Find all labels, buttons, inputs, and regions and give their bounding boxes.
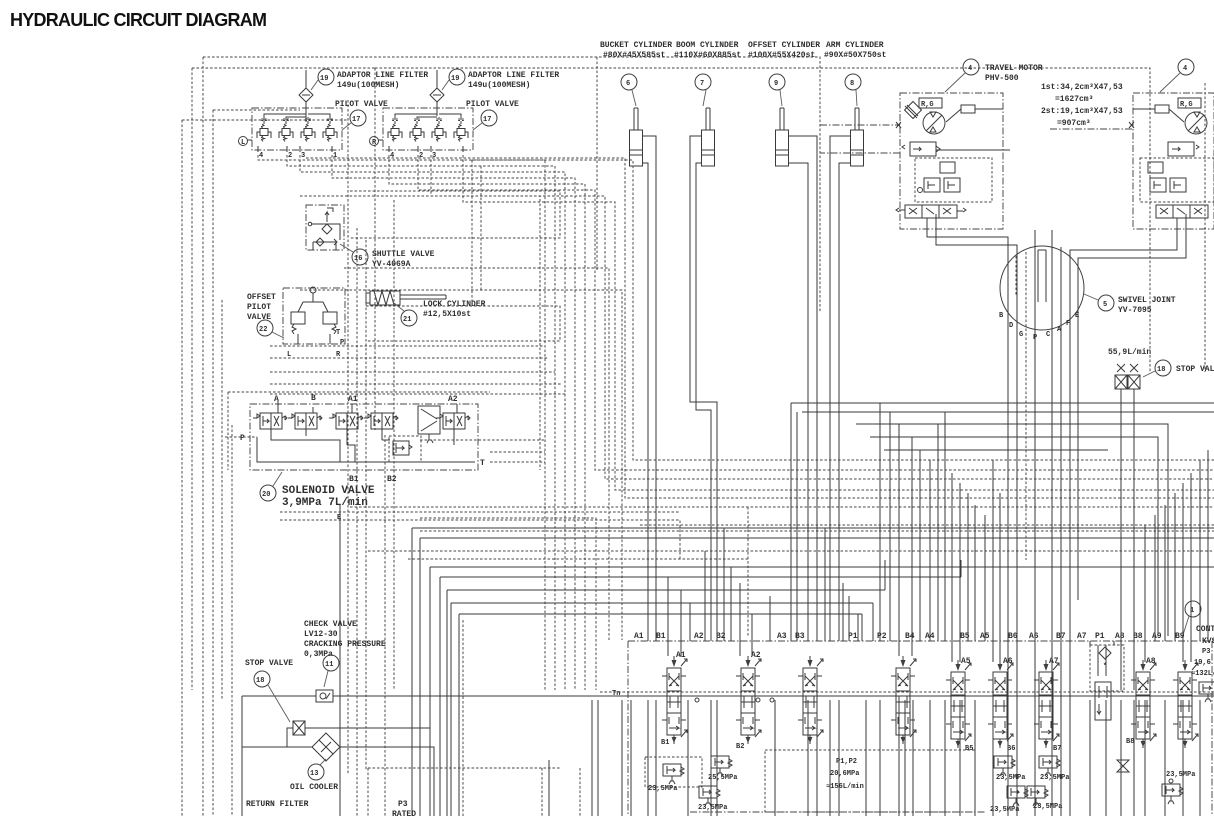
wire [879, 403, 881, 641]
wire [420, 530, 1214, 532]
wire [848, 596, 850, 641]
wire [471, 160, 473, 306]
wire [596, 57, 598, 270]
wire boom rod [690, 136, 717, 641]
wire [347, 100, 349, 775]
svg-text:=1627cm³: =1627cm³ [1055, 95, 1093, 104]
wire bucket cap [643, 163, 648, 641]
wire [462, 620, 464, 816]
svg-text:4: 4 [968, 65, 972, 73]
wire [384, 435, 386, 816]
pilot valve 17 (right) [370, 100, 520, 160]
wire [904, 700, 906, 816]
svg-text:B7: B7 [1053, 745, 1061, 753]
wire [1190, 473, 1192, 662]
svg-text:SWIVEL JOINT: SWIVEL JOINT [1118, 296, 1176, 305]
wire [1121, 389, 1134, 680]
svg-text:G: G [1019, 331, 1023, 339]
svg-text:25,5MPa: 25,5MPa [708, 774, 738, 782]
wire offset cap [789, 163, 808, 641]
svg-text:E: E [1075, 312, 1079, 320]
wire [630, 700, 632, 816]
wire [816, 700, 818, 816]
svg-text:B3: B3 [795, 632, 805, 641]
svg-text:ADAPTOR LINE FILTER: ADAPTOR LINE FILTER [468, 71, 559, 80]
wire travel R [1078, 214, 1186, 600]
wire [865, 700, 867, 816]
wire [790, 403, 792, 641]
wire [1199, 460, 1201, 641]
wire [459, 614, 862, 816]
solenoid valve A2a [364, 413, 398, 429]
wire [447, 590, 885, 816]
svg-text:C: C [1046, 331, 1050, 339]
svg-text:19: 19 [320, 75, 328, 83]
wire [769, 596, 771, 641]
svg-text:T: T [480, 459, 485, 468]
wire travel L [927, 218, 1008, 816]
wire [480, 166, 482, 290]
svg-text:5: 5 [1103, 301, 1107, 309]
svg-text:P1: P1 [1095, 632, 1105, 641]
wire [366, 306, 560, 341]
junction nodes [695, 698, 699, 702]
svg-text:2: 2 [419, 152, 423, 160]
svg-text:A7: A7 [1077, 632, 1087, 641]
svg-text:A3: A3 [777, 632, 787, 641]
svg-text:1st:34,2cm³X47,53: 1st:34,2cm³X47,53 [1041, 83, 1123, 92]
solenoid valve B [288, 413, 322, 429]
wire [420, 538, 1214, 816]
relief A1 [663, 764, 684, 784]
wire [182, 119, 348, 121]
wire [365, 240, 367, 770]
wire [280, 511, 680, 513]
P1 filter diamond [1099, 647, 1111, 659]
svg-text:BOOM CYLINDER: BOOM CYLINDER [676, 41, 739, 50]
svg-text:2st:19,1cm³X47,53: 2st:19,1cm³X47,53 [1041, 107, 1123, 116]
svg-text:R,G: R,G [1180, 101, 1193, 109]
svg-text:B2: B2 [387, 475, 397, 484]
svg-text:T: T [336, 329, 340, 337]
lock cylinder 21 [366, 291, 486, 326]
wire [919, 450, 921, 641]
svg-text:1: 1 [333, 152, 337, 160]
svg-text:B1: B1 [656, 632, 666, 641]
wire [1182, 483, 1184, 662]
wire [418, 155, 1214, 470]
wire travel L [936, 214, 1017, 816]
2-position valve [418, 406, 440, 434]
wire [270, 357, 549, 359]
wire [213, 109, 300, 111]
svg-text:≈156L/min: ≈156L/min [826, 783, 864, 791]
wire [203, 57, 820, 312]
svg-text:18: 18 [1157, 366, 1165, 374]
svg-text:149u(100MESH): 149u(100MESH) [337, 81, 399, 90]
wire [300, 290, 622, 640]
wire [1069, 700, 1071, 816]
svg-text:SHUTTLE VALVE: SHUTTLE VALVE [372, 250, 435, 259]
wire [597, 700, 599, 816]
wire [689, 603, 691, 641]
wire [1144, 700, 1146, 816]
wire [1120, 700, 1122, 816]
svg-text:ADAPTOR LINE FILTER: ADAPTOR LINE FILTER [337, 71, 428, 80]
wire [339, 505, 341, 816]
solenoid valve A1 [329, 413, 363, 429]
adaptor line filter 19 (right) [430, 69, 559, 116]
wire [960, 560, 962, 577]
wire [710, 700, 712, 816]
svg-text:OIL COOLER: OIL COOLER [290, 783, 338, 792]
wire [1016, 700, 1018, 816]
wire [751, 614, 753, 656]
svg-text:13: 13 [310, 770, 318, 778]
travel motor 4 (right) [1133, 93, 1214, 229]
wire [228, 392, 490, 470]
wire [332, 155, 575, 690]
wire [959, 483, 961, 662]
svg-text:#80X#45X585st: #80X#45X585st [603, 51, 666, 60]
wire [1113, 641, 1115, 645]
internal bus [257, 429, 475, 462]
wire swivel [1034, 230, 1036, 816]
wire [202, 57, 204, 816]
svg-text:23,5MPa: 23,5MPa [990, 806, 1020, 814]
relief right [1162, 784, 1183, 804]
svg-text:RATED: RATED [392, 810, 416, 816]
svg-text:P: P [240, 434, 245, 443]
wire arm cap [839, 163, 851, 641]
wire [192, 67, 375, 69]
wire [889, 412, 891, 641]
valve block right/bottom borders [690, 641, 1212, 816]
svg-text:=907cm³: =907cm³ [1057, 119, 1091, 128]
Tn line [242, 695, 1214, 697]
svg-text:18: 18 [256, 677, 264, 685]
wire [640, 524, 1214, 526]
wire [937, 424, 939, 641]
wire [1060, 700, 1062, 816]
circle 1 control valve [1185, 601, 1201, 617]
svg-text:R,G: R,G [921, 101, 934, 109]
wire [258, 155, 545, 690]
svg-text:55,9L/min: 55,9L/min [1108, 348, 1151, 357]
wire [591, 700, 593, 816]
wire [861, 614, 863, 641]
svg-text:21: 21 [403, 316, 411, 324]
svg-text:B1: B1 [661, 739, 669, 747]
wire [420, 439, 545, 441]
wire [1007, 700, 1009, 816]
wire [824, 528, 826, 641]
shuttle valve 16 [306, 205, 435, 269]
wire [667, 577, 669, 656]
svg-text:A2: A2 [694, 632, 704, 641]
svg-text:BUCKET CYLINDER: BUCKET CYLINDER [600, 41, 672, 50]
wire [1105, 700, 1107, 816]
relief B6 [994, 756, 1015, 776]
travel motor 4 (left) [900, 93, 1003, 229]
offset pilot valve 22 [247, 287, 345, 359]
svg-text:B5: B5 [965, 745, 973, 753]
svg-text:STOP VALVE: STOP VALVE [245, 659, 293, 668]
wire [1164, 505, 1166, 641]
svg-text:STOP VALVE: STOP VALVE [1176, 365, 1214, 374]
wire [393, 200, 395, 690]
spool 3 [798, 656, 823, 744]
svg-text:YV-7095: YV-7095 [1118, 306, 1152, 315]
wire [774, 700, 776, 816]
svg-text:#100X#55X420st: #100X#55X420st [748, 51, 815, 60]
wire [212, 110, 214, 816]
wire [739, 583, 741, 656]
svg-text:149u(100MESH): 149u(100MESH) [468, 81, 530, 90]
svg-text:PHV-500: PHV-500 [985, 74, 1019, 83]
wire [1133, 700, 1135, 816]
wire [984, 515, 986, 641]
core bar [1038, 250, 1046, 302]
spool right edge [1173, 660, 1198, 748]
wire [944, 412, 946, 641]
wire [884, 449, 1108, 451]
svg-text:2: 2 [288, 152, 292, 160]
wire [1089, 700, 1091, 816]
wire [911, 437, 913, 656]
wire [231, 425, 233, 816]
svg-text:7: 7 [700, 80, 704, 88]
svg-text:4: 4 [1183, 65, 1187, 73]
wire [747, 507, 749, 636]
wire [270, 345, 543, 347]
wire [1154, 515, 1156, 641]
wire [344, 268, 609, 640]
wire [951, 473, 953, 662]
pilot valve 17 (left) [239, 100, 389, 160]
wire [929, 460, 931, 641]
wire [221, 300, 223, 700]
wire [350, 506, 1214, 508]
svg-text:23,5MPa: 23,5MPa [996, 774, 1026, 782]
wire boom cap [696, 163, 711, 641]
wire [912, 700, 914, 816]
wire [842, 583, 844, 641]
wire [1051, 700, 1053, 816]
wire [807, 700, 809, 816]
svg-text:4: 4 [259, 152, 263, 160]
svg-text:*: * [1103, 663, 1107, 671]
wire [791, 402, 1214, 404]
wire [374, 68, 376, 430]
svg-text:23,5MPa: 23,5MPa [1033, 803, 1063, 811]
wire [992, 700, 994, 816]
wire [463, 155, 1214, 490]
svg-text:B2: B2 [736, 743, 744, 751]
wire [412, 528, 1214, 816]
svg-text:TRAVEL MOTOR: TRAVEL MOTOR [985, 64, 1043, 73]
wire [408, 558, 748, 560]
wire [541, 768, 543, 816]
svg-text:6: 6 [626, 80, 630, 88]
wire [1164, 700, 1166, 816]
wire [287, 155, 555, 690]
wire [879, 700, 881, 816]
wire [621, 700, 623, 816]
svg-text:HYDRAULIC CIRCUIT DIAGRAM: HYDRAULIC CIRCUIT DIAGRAM [10, 10, 266, 30]
wire swivel [1051, 230, 1053, 816]
svg-text:A2: A2 [448, 395, 458, 404]
wire [440, 577, 961, 816]
svg-text:4: 4 [390, 152, 394, 160]
wire [191, 68, 193, 690]
wire travel R [1070, 218, 1177, 816]
svg-text:B4: B4 [905, 632, 915, 641]
wire [1015, 256, 1017, 295]
wire [723, 528, 725, 641]
svg-text:20,6MPa: 20,6MPa [830, 770, 860, 778]
wire [730, 567, 732, 641]
svg-text:LOCK CYLINDER: LOCK CYLINDER [423, 300, 486, 309]
svg-text:16: 16 [354, 255, 362, 263]
spool small P1 [1095, 682, 1111, 720]
svg-text:20: 20 [262, 491, 270, 499]
svg-text:23,5MPa: 23,5MPa [1166, 771, 1196, 779]
wire [959, 700, 961, 816]
svg-text:22: 22 [259, 326, 267, 334]
wire [687, 700, 689, 816]
wire [898, 700, 900, 816]
svg-text:#110X#60X885st: #110X#60X885st [674, 51, 741, 60]
wire [974, 700, 976, 816]
wire [280, 520, 680, 560]
svg-text:PILOT VALVE: PILOT VALVE [335, 100, 388, 109]
svg-text:LV12-30: LV12-30 [304, 630, 338, 639]
wire [872, 603, 874, 641]
spool 4 [891, 656, 916, 744]
wire offset rod [789, 136, 817, 641]
wire [838, 700, 840, 816]
wire [829, 700, 831, 816]
oil cooler 13 [312, 733, 340, 761]
svg-text:CRACKING PRESSURE: CRACKING PRESSURE [304, 640, 386, 649]
svg-text:PILOT VALVE: PILOT VALVE [466, 100, 519, 109]
wire [472, 160, 1214, 460]
wire [490, 461, 545, 463]
svg-text:ARM CYLINDER: ARM CYLINDER [826, 41, 884, 50]
wire [306, 158, 1214, 498]
wire [929, 700, 931, 816]
solenoid valve A2b [436, 413, 470, 429]
svg-text:E: E [337, 514, 341, 522]
svg-text:P3: P3 [398, 800, 408, 809]
wire [716, 700, 718, 816]
wire [490, 451, 545, 453]
svg-text:Tn: Tn [612, 690, 620, 698]
svg-text:A1: A1 [348, 395, 358, 404]
svg-text:A8: A8 [1115, 632, 1125, 641]
wire [680, 590, 682, 656]
svg-text:CHECK VALVE: CHECK VALVE [304, 620, 357, 629]
wire [856, 424, 1168, 636]
svg-text:23,5MPa: 23,5MPa [698, 804, 728, 812]
svg-text:19: 19 [451, 75, 459, 83]
wire [389, 155, 585, 690]
wire [368, 550, 1214, 552]
svg-text:P3: P3 [1202, 648, 1210, 656]
wire [270, 371, 555, 373]
block border [628, 641, 1214, 816]
wire [350, 191, 560, 238]
svg-text:A6: A6 [1029, 632, 1039, 641]
svg-text:B8: B8 [1126, 738, 1134, 746]
wire [1097, 645, 1099, 676]
wire [1207, 450, 1209, 641]
wire [974, 505, 976, 641]
svg-text:RETURN FILTER: RETURN FILTER [246, 800, 309, 809]
wire swivel [1060, 247, 1062, 816]
wire [898, 424, 900, 656]
svg-text:#12,5X10st: #12,5X10st [423, 310, 471, 319]
relief dashed boxes [645, 757, 702, 787]
wire [431, 155, 1214, 479]
wire [1199, 700, 1201, 816]
wire [270, 383, 561, 385]
solenoid valve A [253, 413, 287, 429]
svg-text:A9: A9 [1152, 632, 1162, 641]
wire [1025, 252, 1027, 560]
svg-text:9: 9 [774, 80, 778, 88]
svg-text:L: L [241, 139, 245, 147]
wire bucket rod [643, 136, 656, 641]
wire [1204, 83, 1206, 372]
wire stop valve [1133, 389, 1135, 690]
wire [796, 412, 798, 641]
adaptor line filter 19 (left) [299, 69, 428, 116]
wire [1174, 493, 1176, 641]
svg-text:≈132L/: ≈132L/ [1191, 670, 1214, 678]
wire [630, 640, 632, 642]
svg-text:#90X#50X750st: #90X#50X750st [824, 51, 887, 60]
svg-text:11: 11 [325, 661, 333, 669]
wire [1034, 700, 1036, 816]
svg-text:P2: P2 [877, 632, 887, 641]
relief A2 [711, 756, 732, 776]
svg-text:3: 3 [432, 152, 436, 160]
svg-text:19,6: 19,6 [1194, 659, 1211, 667]
wire [300, 155, 565, 690]
wire [1144, 525, 1146, 662]
pilot relief sub-block [389, 436, 421, 462]
svg-text:A1: A1 [634, 632, 644, 641]
check valve [316, 690, 333, 702]
circle 20 [260, 485, 276, 501]
svg-text:17: 17 [483, 116, 491, 124]
svg-text:D: D [1009, 322, 1013, 330]
wire [992, 460, 994, 662]
relief B7 [1039, 756, 1060, 776]
svg-text:SOLENOID VALVE: SOLENOID VALVE [282, 485, 375, 497]
wire [430, 567, 1214, 816]
wire [999, 493, 1001, 662]
wire [451, 603, 873, 816]
wire [655, 700, 657, 816]
svg-text:PILOT: PILOT [247, 303, 271, 312]
svg-text:OFFSET CYLINDER: OFFSET CYLINDER [748, 41, 820, 50]
wire [802, 411, 1214, 413]
wire [944, 700, 946, 816]
wire [647, 700, 649, 816]
